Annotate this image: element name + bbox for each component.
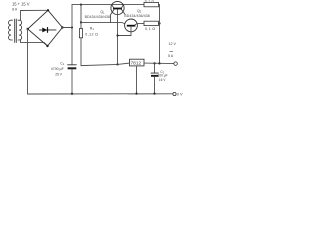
svg-text:8 A: 8 A	[12, 8, 18, 12]
wire secondary top to bridge AC1	[21, 10, 49, 20]
capacitor C1 bottom plate	[68, 67, 77, 69]
svg-text:BD434/436/438: BD434/436/438	[85, 15, 110, 19]
svg-text:C1: C1	[60, 61, 65, 66]
transformer T1 secondary winding	[18, 20, 22, 40]
svg-text:12 V: 12 V	[169, 42, 177, 46]
wire R3 right stub	[159, 22, 160, 24]
wire output vertical	[159, 5, 161, 64]
transistor Q1 emitter diagonal to rail	[112, 5, 114, 9]
svg-text:15 + 15 V: 15 + 15 V	[12, 2, 30, 7]
wire secondary bottom to bridge AC2	[21, 40, 48, 46]
wire C1 lower lead	[71, 69, 73, 94]
transistor Q1 lower right leg to Q2	[121, 9, 125, 14]
bridge rectifier B1 diamond	[28, 10, 63, 46]
svg-text:0 V: 0 V	[177, 93, 183, 97]
wire R1 top lead from rail	[80, 5, 82, 29]
bridge diode triangle	[42, 28, 47, 33]
node dot C1 on 0V rail	[71, 93, 73, 95]
svg-text:25 V: 25 V	[55, 73, 63, 77]
transistor Q2 base bar	[127, 25, 136, 27]
transistor Q1 lower left leg	[111, 9, 114, 22]
node dot base bus meets input	[116, 63, 118, 65]
transistor Q1 collector diagonal to rail	[121, 5, 123, 9]
wire Q1 base down	[117, 9, 119, 64]
svg-text:4700 µF: 4700 µF	[51, 67, 64, 71]
wire emitter bus to Q2 emitter	[81, 22, 128, 25]
output terminal 0V	[173, 92, 176, 95]
svg-text:Q2: Q2	[137, 9, 142, 14]
svg-text:0,1 Ω: 0,1 Ω	[145, 27, 156, 31]
node dot C2 on rail	[153, 93, 155, 95]
wire C2 lower lead	[154, 77, 156, 94]
wire node A up to top rail	[71, 5, 73, 28]
bridge diode lead	[40, 29, 57, 31]
node dot C2 tap	[153, 62, 155, 64]
polarity dash	[170, 51, 173, 53]
svg-text:Q1: Q1	[100, 10, 105, 15]
wire 7812 output line	[144, 62, 174, 65]
node dot emitter bus on R1 lead	[80, 21, 82, 23]
capacitor C2 top plate	[151, 72, 158, 74]
wire R1 bottom to 7812 input	[81, 38, 130, 66]
capacitor C1 top plate	[68, 64, 77, 66]
wire Q2 base down and left to base bus	[118, 27, 132, 36]
wire C1 upper lead	[71, 28, 73, 65]
svg-text:100 µF: 100 µF	[158, 74, 168, 78]
resistor R2 body 0,1 ohm top	[144, 2, 159, 6]
svg-text:0,12 Ω: 0,12 Ω	[85, 33, 98, 37]
node junction dot C1 tap	[71, 26, 73, 28]
node dot R3 stub on output vertical	[158, 22, 160, 24]
capacitor C2 bottom plate	[151, 75, 158, 77]
wire bridge minus down to 0V rail	[27, 29, 29, 94]
svg-text:5 A: 5 A	[168, 54, 174, 58]
wire 7812 ground lead	[136, 66, 138, 94]
node dot output vertical on output line	[158, 62, 160, 64]
wire Q2 collector to R3	[137, 22, 144, 24]
svg-text:R1: R1	[90, 27, 95, 32]
wire C2 upper lead	[154, 63, 156, 73]
transformer T1 core	[15, 19, 17, 42]
transistor Q2 collector diagonal	[135, 23, 138, 25]
transformer T1 primary winding	[9, 20, 13, 40]
transistor Q1 circle	[111, 1, 124, 14]
output terminal plus	[174, 62, 178, 66]
transistor Q2 circle	[125, 19, 138, 32]
svg-text:BD434/436/438: BD434/436/438	[124, 14, 149, 18]
wire top rail	[72, 4, 144, 6]
node dot 7812 gnd on rail	[135, 93, 137, 95]
svg-text:16 V: 16 V	[159, 78, 166, 82]
wire R2 right stub	[159, 4, 160, 6]
bridge diode cathode bar	[47, 28, 49, 33]
node dot base bus	[116, 34, 118, 36]
resistor R3 body 0,1 ohm bottom	[144, 21, 159, 25]
wire bridge plus to R1	[62, 27, 72, 29]
regulator IC1 7812 box	[130, 59, 145, 66]
svg-text:0,1 Ω: 0,1 Ω	[145, 0, 155, 4]
node dot R1 on top rail	[80, 4, 82, 6]
resistor R1 body	[79, 29, 82, 38]
svg-text:7812: 7812	[131, 61, 142, 67]
transistor Q1 base bar	[113, 8, 122, 10]
wire 0V bottom rail	[28, 93, 173, 95]
bridge corner node dots	[27, 9, 64, 47]
